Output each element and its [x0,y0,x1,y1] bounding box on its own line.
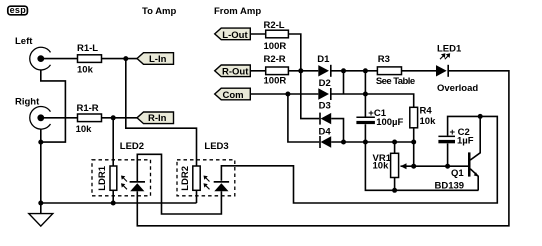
svg-text:See Table: See Table [376,76,415,87]
svg-text:Q1: Q1 [451,168,464,179]
svg-text:R-In: R-In [148,113,167,124]
svg-text:L-Out: L-Out [222,30,248,41]
svg-text:R1-L: R1-L [77,43,98,54]
svg-text:LED1: LED1 [437,44,462,55]
svg-text:1µF: 1µF [457,136,474,147]
svg-text:Com: Com [223,90,244,101]
svg-text:BD139: BD139 [435,181,465,192]
svg-text:D3: D3 [319,101,331,112]
svg-text:LED3: LED3 [204,141,228,152]
svg-text:R2-R: R2-R [264,54,286,65]
svg-text:R2-L: R2-L [264,20,285,31]
svg-text:LDR1: LDR1 [97,165,108,191]
svg-text:D4: D4 [319,126,332,137]
svg-text:esp: esp [10,5,27,15]
svg-text:10k: 10k [420,116,437,127]
svg-text:10k: 10k [373,161,390,172]
svg-text:D2: D2 [319,78,331,89]
svg-text:100R: 100R [264,75,287,86]
svg-text:Overload: Overload [437,83,478,94]
svg-text:Left: Left [15,36,33,47]
svg-text:10k: 10k [76,124,93,135]
svg-text:10k: 10k [77,64,94,75]
svg-text:100µF: 100µF [376,117,403,128]
svg-text:D1: D1 [317,54,330,65]
svg-text:Right: Right [15,96,40,107]
svg-text:R4: R4 [420,106,433,117]
svg-text:L-In: L-In [149,54,167,65]
svg-text:R-Out: R-Out [222,67,249,78]
svg-text:To Amp: To Amp [142,6,176,17]
svg-text:100R: 100R [264,41,287,52]
svg-text:R1-R: R1-R [77,103,99,114]
svg-text:R3: R3 [378,54,390,65]
svg-text:From Amp: From Amp [214,6,261,17]
svg-text:LDR2: LDR2 [180,166,191,191]
svg-text:LED2: LED2 [120,141,144,152]
